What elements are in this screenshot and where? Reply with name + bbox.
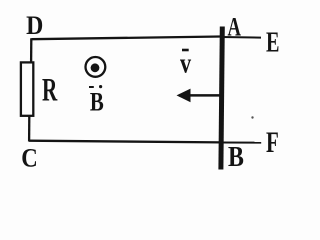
velocity arrow shaft <box>179 94 220 97</box>
wire: left bottom stub resistor to C <box>28 115 30 142</box>
svg-text:D: D <box>26 10 43 40</box>
velocity arrow head <box>177 89 191 103</box>
bar over v <box>182 49 189 52</box>
svg-text:B: B <box>90 86 104 116</box>
svg-text:v: v <box>180 47 192 79</box>
svg-text:A: A <box>228 11 241 41</box>
svg-text:R: R <box>42 73 58 109</box>
svg-text:F: F <box>266 126 279 159</box>
scan speck <box>251 116 253 118</box>
svg-text:C: C <box>21 142 38 172</box>
wire: top D to rod A <box>32 37 222 40</box>
wire: left top stub D to resistor <box>30 38 32 63</box>
vector dot over B <box>99 85 102 88</box>
wire: rod A to E <box>222 36 261 39</box>
wire: bottom C to rod B <box>29 141 221 143</box>
svg-text:E: E <box>266 26 280 58</box>
resistor R <box>21 62 33 115</box>
svg-text:B: B <box>228 142 244 173</box>
conductor rod AB <box>221 27 222 170</box>
vector dash over B <box>89 86 94 88</box>
field symbol: circle with dot (B out of page) <box>86 57 106 77</box>
wire: rod B to F <box>222 142 261 144</box>
